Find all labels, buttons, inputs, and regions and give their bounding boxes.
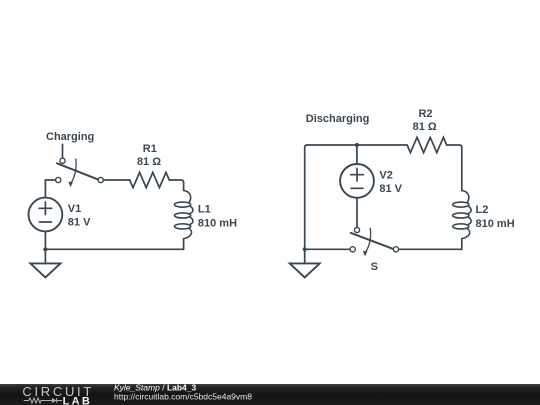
- footer bar: [0, 384, 540, 405]
- wire from L1 bottom to bottom rail: [183, 239, 185, 250]
- switch S common terminal: [393, 247, 398, 252]
- svg-text:Charging: Charging: [46, 131, 94, 143]
- svg-text:810 mH: 810 mH: [198, 218, 237, 230]
- switch S left throw terminal: [350, 247, 355, 252]
- svg-text:Discharging: Discharging: [306, 113, 370, 125]
- switch S top throw terminal: [354, 227, 359, 232]
- svg-text:81 Ω: 81 Ω: [137, 156, 161, 168]
- switch S lever: [351, 233, 393, 249]
- wire top rail of discharging loop: [307, 144, 407, 146]
- svg-text:81 V: 81 V: [68, 217, 91, 229]
- svg-text:81 V: 81 V: [379, 183, 402, 195]
- wire from SW1 common to R1: [103, 179, 129, 181]
- inductor L1: [175, 190, 193, 238]
- svg-text:V2: V2: [379, 169, 392, 181]
- wire bottom rail of charging loop: [45, 248, 183, 250]
- svg-text:81 Ω: 81 Ω: [413, 121, 437, 133]
- switch S actuation arrow: [366, 228, 371, 252]
- wire from ground junction to switch S left throw: [305, 248, 350, 250]
- wire left rail of discharging loop: [305, 145, 307, 249]
- junction node at V1 minus / ground: [43, 247, 47, 251]
- wire from SW1 left throw to V1 plus: [45, 180, 55, 198]
- svg-text:R1: R1: [143, 143, 157, 155]
- junction node at ground / left rail: [303, 247, 307, 251]
- CircuitLab logo schematic squiggle: wire, resistor, diode: [24, 398, 62, 403]
- resistor R2: [407, 137, 447, 152]
- svg-text:LAB: LAB: [63, 395, 93, 405]
- ground GND1: [44, 249, 46, 263]
- switch SW1 actuation arrow: [71, 159, 76, 183]
- wire from switch S common to L2 bottom: [399, 248, 462, 250]
- wire from L2 bottom to bottom rail: [461, 239, 463, 250]
- switch SW1 top throw terminal: [60, 158, 65, 163]
- svg-text:R2: R2: [418, 108, 432, 120]
- wire from top rail junction to V2 plus: [356, 145, 358, 164]
- switch SW1 lever: [57, 163, 98, 179]
- wire from R1 to L1: [169, 180, 183, 190]
- svg-text:L2: L2: [476, 204, 489, 216]
- switch SW1 common terminal: [98, 177, 103, 182]
- ground GND2: [304, 249, 306, 263]
- svg-text:S: S: [371, 261, 378, 273]
- wire from R2 to L2: [447, 145, 462, 190]
- wire stub from Charging node to switch SW1 top throw: [62, 144, 64, 158]
- voltage source V2: [340, 164, 374, 198]
- svg-text:http://circuitlab.com/c5bdc5e4: http://circuitlab.com/c5bdc5e4a9vm8: [114, 392, 252, 402]
- svg-text:L1: L1: [198, 204, 211, 216]
- svg-text:810 mH: 810 mH: [476, 218, 515, 230]
- switch SW1 left throw terminal: [56, 177, 61, 182]
- inductor L2: [453, 190, 471, 238]
- voltage source V1: [29, 198, 63, 232]
- svg-text:V1: V1: [68, 203, 81, 215]
- wire from V2 minus to switch S: [356, 198, 358, 227]
- wire from V1 minus to ground junction: [44, 231, 46, 249]
- junction node at V2 plus / top rail: [355, 143, 359, 147]
- resistor R1: [130, 172, 170, 187]
